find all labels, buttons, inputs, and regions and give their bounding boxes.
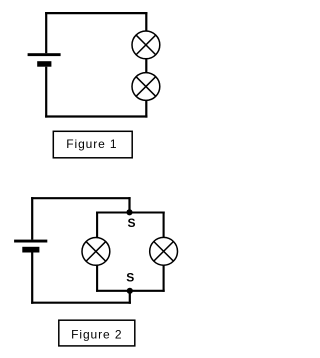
Figure 2 caption box <box>59 320 135 346</box>
battery B2 long plate (+) <box>14 240 47 243</box>
wire: stub from node S (bottom) down to bottom rail <box>129 291 131 304</box>
svg-text:S: S <box>126 271 134 285</box>
wire: bottom rail Figure 2 <box>31 302 131 304</box>
wire: left wire lower (battery B2 to bottom) <box>31 253 33 304</box>
lamp L2 (circle with X) <box>132 73 160 101</box>
lamp L3 (circle with X) <box>82 238 110 266</box>
wire: left branch lower (lamp L3 to bottom rail) <box>96 265 98 292</box>
node S (bottom junction dot) <box>127 288 133 294</box>
wire: parallel bottom rail <box>96 290 165 292</box>
wire: top rail Figure 2 <box>31 197 131 199</box>
svg-text:S: S <box>127 216 135 230</box>
wire: parallel top rail <box>96 211 165 213</box>
wire: left wire upper (to battery) <box>45 12 47 53</box>
wire: bottom rail Figure 1 <box>45 115 147 117</box>
svg-text:Figure 2: Figure 2 <box>71 328 122 342</box>
battery B1 long plate (+) <box>28 53 61 56</box>
wire: right wire upper (to lamp L1) <box>145 12 147 31</box>
wire: between lamps <box>145 59 147 73</box>
node S (top junction dot) <box>126 209 132 215</box>
lamp L4 (circle with X) <box>150 237 178 265</box>
wire: right wire lower (lamp L2 to bottom) <box>145 100 147 117</box>
wire: stub from top rail down to node S (top) <box>128 197 130 212</box>
lamp L1 (circle with X) <box>132 31 160 59</box>
wire: left wire lower (battery to bottom) <box>45 67 47 118</box>
svg-text:Figure 1: Figure 1 <box>66 137 117 151</box>
wire: top rail Figure 1 <box>45 12 147 14</box>
wire: left branch upper (to lamp L3) <box>96 212 98 238</box>
Figure 1 caption box <box>53 131 132 158</box>
battery B2 short thick plate (-) <box>22 247 39 253</box>
battery B1 short thick plate (-) <box>37 61 51 66</box>
wire: left wire upper (to battery B2) <box>31 197 33 240</box>
wire: right branch lower (lamp L4 to bottom rail) <box>163 265 165 292</box>
wire: right branch upper (to lamp L4) <box>163 212 165 238</box>
